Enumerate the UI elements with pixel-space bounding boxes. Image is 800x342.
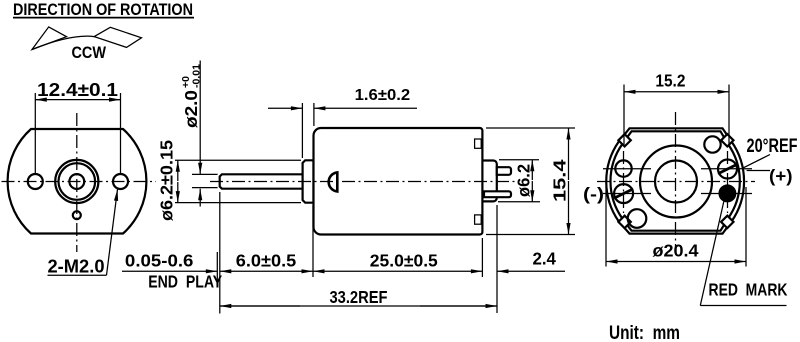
dimension text ø2.0 +0 -0.01 [180,64,203,128]
20° leader sloped [743,155,770,169]
svg-text:Unit: mm: Unit: mm [609,323,680,342]
rear center line vertical [675,112,677,252]
cap right extension line [496,205,498,313]
dimension 33.2REF line [220,305,300,307]
mounting hole right [113,174,128,189]
svg-text:(+): (+) [769,166,793,186]
vent hole upper-left [615,160,631,176]
dimension 1.6±0.2 extension lines [301,103,303,158]
svg-text:DIRECTION OF ROTATION: DIRECTION OF ROTATION [13,1,193,19]
svg-text:33.2REF: 33.2REF [330,287,388,307]
body tab bottom [475,215,482,224]
shaft D mark [329,172,338,191]
front shaft hole [69,174,84,189]
svg-text:2.4: 2.4 [532,249,556,269]
svg-text:0.05-0.6: 0.05-0.6 [125,251,194,271]
svg-text:25.0±0.5: 25.0±0.5 [370,251,438,271]
motor body [314,128,483,235]
CCW rotation arrow [32,27,142,50]
dimension 1.6±0.2 arrows [268,107,302,109]
svg-text:15.2: 15.2 [655,71,685,91]
side view shaft [220,174,303,188]
dimension 0.05-0.6 leader [122,270,217,272]
shaft end extension line [219,192,221,314]
small pilot hole [73,211,81,219]
dimension ø2.0 line and arrows [199,61,201,175]
dimension 6.0±0.5 line [220,270,240,272]
dimension 15.4 line [568,128,570,180]
rear view outline outer [606,128,744,233]
dimension 15.2 line [624,91,660,93]
terminal slash lower-left [614,189,633,198]
label 2-M2.0 leader [48,274,107,276]
mounting hole left [28,174,43,189]
rear view outline inner rim [610,131,739,230]
terminal circle lower-left [614,184,633,203]
dimension ø6.2±0.15 extension lines [175,159,301,161]
svg-text:(-): (-) [583,184,604,204]
svg-text:RED MARK: RED MARK [709,280,788,300]
dimension ø6.2±0.15 line [177,160,179,181]
svg-text:1.6±0.2: 1.6±0.2 [355,87,411,104]
body left extension line [312,205,314,277]
vent hole bottom-left [628,209,647,228]
terminal centerline horizontal lower [603,193,651,195]
dimension 12.4±0.1 extension lines [34,93,36,173]
svg-text:6.0±0.5: 6.0±0.5 [236,251,297,271]
rear inner circle [655,161,697,203]
svg-text:2-M2.0: 2-M2.0 [48,256,105,277]
terminal centerline vertical right [727,151,729,213]
red mark leader [700,202,724,306]
rear bearing circle [640,146,712,218]
dimension ø20.4 line [606,261,650,263]
svg-text:20°REF: 20°REF [747,136,798,157]
title DIRECTION OF ROTATION [13,1,194,19]
svg-text:ø20.4: ø20.4 [653,241,699,261]
rear center line horizontal [597,181,755,183]
dimension ø6.2 extension lines (end cap) [499,159,539,161]
terminal slash upper-right [718,164,737,173]
dimension 15.4 extension lines [486,127,575,129]
rear corner notch bottom-left [618,216,630,228]
terminal top [497,167,511,175]
svg-text:ø6.2: ø6.2 [514,164,534,197]
svg-text:-0.01: -0.01 [191,64,203,88]
shaft extension lines [192,173,218,175]
side view axis center line [210,181,517,183]
rear corner notch top-left [618,134,630,146]
dimension ø6.2 line [531,160,533,180]
side view end cap [482,161,496,202]
svg-text:15.4: 15.4 [550,159,570,202]
svg-text:END PLAY: END PLAY [148,272,222,292]
front bearing boss circle outer [55,160,98,203]
rear corner notch bottom-right [721,216,733,228]
end play extension line [216,252,218,283]
svg-text:ø6.2±0.15: ø6.2±0.15 [157,140,177,221]
front bearing boss circle inner [59,163,96,200]
terminal bottom [484,191,511,197]
rear corner notch top-right [721,134,733,146]
terminal circle upper-right [718,160,737,179]
svg-text:ø2.0: ø2.0 [181,90,201,128]
svg-text:12.4±0.1: 12.4±0.1 [37,80,118,100]
dimension 25.0±0.5 line [313,270,390,272]
dimension text ø6.2 [514,164,534,197]
dimension 15.2 extension lines [623,85,625,147]
front view center line horizontal [2,181,157,183]
body right extension line [481,238,483,277]
side view bearing boss [303,160,314,202]
red mark filled circle [718,184,736,202]
dimension 2.4 line [497,270,565,272]
20° leader horizontal [747,170,770,172]
dimension 12.4±0.1 line [35,99,120,101]
body tab top [475,139,482,148]
front view center line vertical [76,113,78,252]
terminal centerline horizontal upper [603,168,651,170]
dimension text 15.4 [550,159,570,202]
dimension text ø6.2±0.15 [157,140,177,221]
front view outline [8,129,147,234]
vent hole top-right [704,136,720,152]
terminal centerline vertical left [623,151,625,213]
svg-text:CCW: CCW [72,43,107,62]
dimension ø20.4 extension lines [605,187,607,267]
